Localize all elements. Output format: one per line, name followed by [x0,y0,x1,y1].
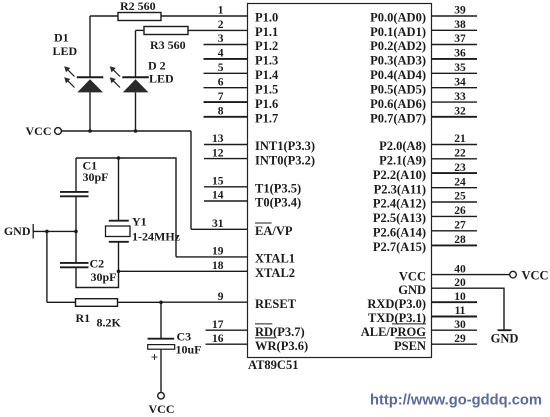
svg-text:INT0(P3.2): INT0(P3.2) [255,153,315,167]
pin 3 P1.2: wire, pin number, pin label [204,33,279,53]
junction dot: C1/C2 midpoint on GND wire [74,230,78,234]
junction dot: D1 anode on VCC rail [88,129,92,133]
svg-text:P2.4(A12): P2.4(A12) [373,197,426,211]
resistor R2 560: value label, body, lead wires [90,0,161,21]
svg-text:RD(P3.7): RD(P3.7) [255,325,305,339]
svg-text:21: 21 [454,133,466,145]
svg-text:P1.4: P1.4 [255,68,279,82]
svg-text:P1.6: P1.6 [255,97,278,111]
svg-text:EA/VP: EA/VP [255,224,293,238]
svg-text:VCC: VCC [149,402,175,416]
LED D1: reference label, cathode bar, triangle, emission arrows, leads [53,16,104,131]
pin 2 P1.1: wire, pin number, pin label [188,19,278,39]
svg-text:VCC: VCC [399,269,426,283]
svg-text:GND: GND [398,283,426,297]
ground GND (left): net label, terminal bar, wire [4,224,76,239]
svg-text:P1.2: P1.2 [255,39,278,53]
svg-text:27: 27 [454,220,466,232]
svg-text:P1.0: P1.0 [255,11,278,25]
svg-text:26: 26 [454,205,466,217]
svg-text:PSEN: PSEN [394,339,426,353]
wire: VCC rail from terminal to EA/VP drop [62,130,192,132]
wire: VCC rail down to pin 31 EA/VP [190,131,192,229]
pin 40 VCC: wire, pin number, pin label, VCC terminal circle and net name [399,263,549,283]
pin 20 GND: wire to ground symbol, pin number, pin label, GND symbol [398,277,518,346]
svg-text:P1.1: P1.1 [255,25,278,39]
pin 28 P2.7(A15): wire, pin number, pin label [373,234,477,254]
pin 11 TXD(P3.1): wire, pin number, pin label [368,305,477,325]
svg-text:Y1: Y1 [132,214,147,228]
pin 30 ALE/PROG: wire, pin number, pin label [361,319,477,339]
svg-text:11: 11 [455,305,466,317]
crystal Y1 1-24MHz: labels, electrodes, crystal body, leads [106,158,181,271]
svg-text:1-24MHz: 1-24MHz [132,229,181,243]
resistor R1 8.2K: labels, body, leads from GND to RESET node [47,231,161,329]
svg-text:P1.7: P1.7 [255,112,278,126]
svg-text:TXD(P3.1): TXD(P3.1) [368,311,426,325]
svg-text:P2.5(A13): P2.5(A13) [373,211,426,225]
pin 39 P0.0(AD0): wire, pin number, pin label [370,5,477,25]
svg-text:R1: R1 [76,311,91,325]
svg-text:15: 15 [212,176,224,188]
svg-text:P0.0(AD0): P0.0(AD0) [370,11,426,25]
pin 8 P1.7: wire, pin number, pin label [204,106,279,126]
pin 22 P2.1(A9): wire, pin number, pin label [379,148,477,168]
junction dot: C3 branch on RESET wire [159,301,163,305]
svg-text:+: + [151,350,158,365]
svg-text:GND: GND [4,224,31,238]
svg-text:LED: LED [53,44,78,58]
svg-text:8.2K: 8.2K [97,315,122,329]
svg-text:38: 38 [454,19,466,31]
svg-text:P0.2(AD2): P0.2(AD2) [370,39,426,53]
svg-text:19: 19 [212,246,224,258]
svg-text:1: 1 [218,5,224,17]
svg-text:36: 36 [454,48,466,60]
svg-text:P2.7(A15): P2.7(A15) [373,240,426,254]
svg-text:12: 12 [212,147,224,159]
IC U1 AT89C51 body [248,4,432,358]
svg-text:P0.1(AD1): P0.1(AD1) [370,25,426,39]
svg-text:18: 18 [212,260,224,272]
pin 7 P1.6: wire, pin number, pin label [204,91,279,111]
pin 13 INT1(P3.3): wire, pin number, pin label [204,133,315,153]
svg-text:P0.6(AD6): P0.6(AD6) [370,97,426,111]
svg-text:P1.3: P1.3 [255,54,278,68]
svg-text:P1.5: P1.5 [255,82,278,96]
svg-text:P0.4(AD4): P0.4(AD4) [370,68,426,82]
svg-text:P0.3(AD3): P0.3(AD3) [370,54,426,68]
svg-text:17: 17 [212,319,224,331]
svg-text:24: 24 [454,176,466,188]
svg-text:P2.1(A9): P2.1(A9) [379,154,426,168]
pin 4 P1.3: wire, pin number, pin label [204,48,279,68]
pin 17 RD(P3.7): wire, pin number, pin label [206,319,305,339]
pin 1 P1.0: wire, pin number, pin label [161,5,278,25]
svg-text:VCC: VCC [522,268,549,282]
junction dot: R1 branch on GND wire [45,230,49,234]
svg-text:AT89C51: AT89C51 [248,358,298,372]
pin 23 P2.2(A10): wire, pin number, pin label [373,162,477,182]
pin 35 P0.4(AD4): wire, pin number, pin label [370,62,477,82]
svg-text:T1(P3.5): T1(P3.5) [255,182,301,196]
svg-text:XTAL2: XTAL2 [255,266,295,280]
pin 6 P1.5: wire, pin number, pin label [204,76,279,96]
svg-text:C3: C3 [177,330,192,344]
svg-text:P0.5(AD5): P0.5(AD5) [370,82,426,96]
svg-text:39: 39 [454,5,466,17]
capacitor C3 10uF (polarized): labels, plates, plus sign, leads [148,302,202,392]
svg-text:GND: GND [491,332,519,346]
svg-text:16: 16 [212,333,224,345]
svg-text:P2.3(A11): P2.3(A11) [374,182,426,196]
pin 16 WR(P3.6): wire, pin number, pin label [206,333,309,353]
pin 10 RXD(P3.0): wire, pin number, pin label [367,291,477,311]
svg-text:37: 37 [454,33,466,45]
svg-text:R3 560: R3 560 [150,38,186,52]
pin 18 XTAL2: wire, pin number, pin label [119,260,296,280]
svg-text:P0.7(AD7): P0.7(AD7) [370,112,426,126]
svg-text:30: 30 [454,319,466,331]
pin 19 XTAL1: wire, pin number, pin label [176,246,295,266]
svg-text:P2.0(A8): P2.0(A8) [379,139,426,153]
svg-text:20: 20 [454,277,466,289]
svg-text:XTAL1: XTAL1 [255,252,295,266]
svg-text:35: 35 [454,62,466,74]
pin 33 P0.6(AD6): wire, pin number, pin label [370,91,477,111]
svg-text:30pF: 30pF [91,270,117,284]
svg-text:R2 560: R2 560 [120,0,156,13]
capacitor C1 30pF: labels, plates, leads [60,158,109,231]
svg-text:34: 34 [454,76,466,88]
svg-text:8: 8 [218,106,224,118]
svg-text:WR(P3.6): WR(P3.6) [255,339,308,353]
pin 9 RESET: wire, pin number, pin label [161,291,297,311]
pin 34 P0.5(AD5): wire, pin number, pin label [370,76,477,96]
junction dot: D2 anode on VCC rail [134,129,138,133]
junction dot: Y1 top on XTAL1 rail [117,156,121,160]
svg-text:32: 32 [454,106,466,118]
svg-text:10: 10 [454,291,466,303]
svg-text:INT1(P3.3): INT1(P3.3) [255,139,315,153]
svg-text:P2.2(A10): P2.2(A10) [373,168,426,182]
svg-text:4: 4 [218,48,224,60]
capacitor C2 30pF: labels, plates, leads to XTAL2 node [60,231,119,287]
resistor R3 560: value label, body, lead wires [136,27,189,52]
svg-text:31: 31 [212,218,224,230]
svg-text:LED: LED [149,71,174,85]
svg-text:23: 23 [454,162,466,174]
svg-text:P2.6(A14): P2.6(A14) [373,226,426,240]
pin 24 P2.3(A11): wire, pin number, pin label [374,176,477,196]
pin 29 PSEN: wire, pin number, pin label [394,333,477,353]
junction dot: Y1/C2 node on XTAL2 wire [117,270,121,274]
svg-text:VCC: VCC [26,124,52,138]
svg-text:9: 9 [218,291,224,303]
svg-text:7: 7 [218,91,224,103]
svg-text:5: 5 [218,62,224,74]
pin 36 P0.3(AD3): wire, pin number, pin label [370,48,477,68]
pin 15 T1(P3.5): wire, pin number, pin label [204,176,301,196]
pin 12 INT0(P3.2): wire, pin number, pin label [204,147,315,167]
pin 32 P0.7(AD7): wire, pin number, pin label [370,106,477,126]
svg-text:D 2: D 2 [148,58,166,72]
svg-text:33: 33 [454,91,466,103]
svg-text:30pF: 30pF [83,170,109,184]
svg-text:D1: D1 [54,30,69,44]
LED D2: reference label, cathode bar, triangle, emission arrows, leads [110,30,174,131]
pin 25 P2.4(A12): wire, pin number, pin label [373,191,477,211]
pin 5 P1.4: wire, pin number, pin label [204,62,280,82]
svg-text:6: 6 [218,76,224,88]
svg-text:T0(P3.4): T0(P3.4) [255,196,301,210]
pin 27 P2.6(A14): wire, pin number, pin label [373,220,477,240]
svg-text:ALE/PROG: ALE/PROG [361,325,427,339]
svg-text:2: 2 [218,19,224,31]
svg-text:40: 40 [454,263,466,275]
wire: C1/Y1 top rail to XTAL1 [76,158,176,257]
svg-text:14: 14 [212,190,224,202]
svg-text:10uF: 10uF [176,343,202,357]
svg-text:3: 3 [218,33,224,45]
svg-text:C2: C2 [90,256,105,270]
pin 37 P0.2(AD2): wire, pin number, pin label [370,33,477,53]
VCC terminal (bottom): open circle and net label [149,392,175,416]
svg-text:25: 25 [454,191,466,203]
svg-text:RXD(P3.0): RXD(P3.0) [367,297,426,311]
svg-text:29: 29 [454,333,466,345]
pin 14 T0(P3.4): wire, pin number, pin label [204,190,301,210]
pin 31 EA/VP: wire, pin number, pin label [191,218,293,238]
svg-text:13: 13 [212,133,224,145]
pin 21 P2.0(A8): wire, pin number, pin label [379,133,477,153]
VCC terminal (left): net label and open circle [26,124,62,138]
pin 38 P0.1(AD1): wire, pin number, pin label [370,19,477,39]
svg-text:28: 28 [454,234,466,246]
svg-text:http://www.go-gddq.com: http://www.go-gddq.com [370,391,542,408]
svg-text:22: 22 [454,148,466,160]
pin 26 P2.5(A13): wire, pin number, pin label [373,205,477,225]
svg-text:RESET: RESET [255,297,297,311]
